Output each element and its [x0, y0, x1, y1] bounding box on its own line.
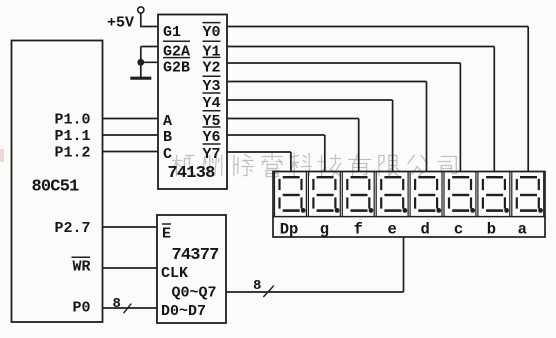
wire P1.1 to B	[103, 134, 158, 136]
watermark band (company name, grey outline glyphs)	[173, 154, 457, 177]
decoder U2 74138 box	[158, 15, 227, 190]
wire Y6 to digit cell 2	[227, 134, 325, 136]
svg-text:G1: G1	[163, 24, 181, 41]
svg-text:g: g	[320, 220, 329, 238]
svg-text:Y2: Y2	[203, 59, 221, 76]
svg-text:f: f	[354, 220, 363, 238]
svg-text:8: 8	[113, 296, 121, 312]
svg-text:A: A	[163, 113, 172, 130]
pink scan artifact left edge	[0, 149, 4, 162]
svg-text:Y4: Y4	[203, 95, 221, 112]
display segment/label separator	[273, 216, 545, 218]
svg-text:b: b	[487, 220, 496, 238]
svg-text:G2B: G2B	[163, 59, 190, 76]
junction dot	[137, 59, 144, 66]
wire G2B tap	[141, 61, 158, 63]
wire Y2 to digit cell 6	[227, 62, 460, 64]
svg-text:d: d	[420, 220, 429, 238]
svg-text:+5V: +5V	[107, 15, 134, 32]
svg-text:P0: P0	[72, 299, 90, 316]
svg-text:D0~D7: D0~D7	[161, 303, 206, 320]
wire Y5 to digit cell 3	[227, 118, 359, 120]
svg-text:c: c	[454, 220, 463, 238]
svg-text:80C51: 80C51	[32, 178, 80, 197]
wire +5V to G1	[140, 13, 142, 26]
digit cell 2 (g)	[308, 172, 340, 217]
digit cell 3 (f)	[342, 172, 374, 217]
svg-text:74377: 74377	[172, 246, 220, 265]
wire P1.2 to C	[103, 151, 158, 153]
MCU U1 80C51 box	[12, 41, 103, 323]
digit cell 8 (a)	[512, 172, 544, 217]
svg-text:a: a	[518, 220, 527, 238]
svg-text:P1.1: P1.1	[54, 128, 90, 145]
svg-text:e: e	[388, 220, 397, 238]
display DS1 8-digit 7-segment module outline	[273, 172, 545, 238]
svg-text:Y0: Y0	[203, 24, 221, 41]
wire G2A to ground rail	[141, 46, 158, 48]
svg-text:74138: 74138	[168, 164, 216, 183]
wire Y4 to digit cell 4	[227, 99, 393, 101]
digit cell 5 (d)	[410, 172, 442, 217]
wire WR to CLK	[103, 267, 157, 269]
digit cell 7 (b)	[478, 172, 510, 217]
svg-text:Y7: Y7	[203, 146, 221, 163]
svg-text:Dp: Dp	[280, 220, 299, 238]
+5V supply terminal	[138, 7, 144, 13]
wire Y1 to digit cell 7	[227, 46, 494, 48]
svg-text:B: B	[163, 129, 172, 146]
digit cell 4 (e)	[376, 172, 408, 217]
ground symbol	[130, 77, 151, 80]
digit cell 6 (c)	[444, 172, 476, 217]
svg-text:Q0~Q7: Q0~Q7	[172, 285, 217, 302]
wire Y0 to digit cell 8	[227, 26, 528, 28]
wire P0 bus to D0~D7	[103, 307, 157, 309]
svg-text:P2.7: P2.7	[54, 220, 90, 237]
wire Y7 to digit cell 1	[227, 151, 291, 153]
wire Q0~Q7 bus to display	[226, 291, 404, 293]
svg-text:WR: WR	[72, 258, 90, 275]
svg-text:P1.2: P1.2	[54, 144, 90, 161]
svg-text:E: E	[162, 226, 171, 243]
wire Y3 to digit cell 5	[227, 81, 427, 83]
latch U3 74377 box	[157, 215, 226, 323]
svg-text:P1.0: P1.0	[54, 111, 90, 128]
digit cell 1 (Dp)	[275, 172, 307, 217]
svg-text:C: C	[163, 146, 172, 163]
svg-text:8: 8	[253, 278, 261, 294]
wire P1.0 to A	[103, 118, 158, 120]
svg-text:CLK: CLK	[161, 265, 188, 282]
wire P2.7 to E	[103, 226, 157, 228]
